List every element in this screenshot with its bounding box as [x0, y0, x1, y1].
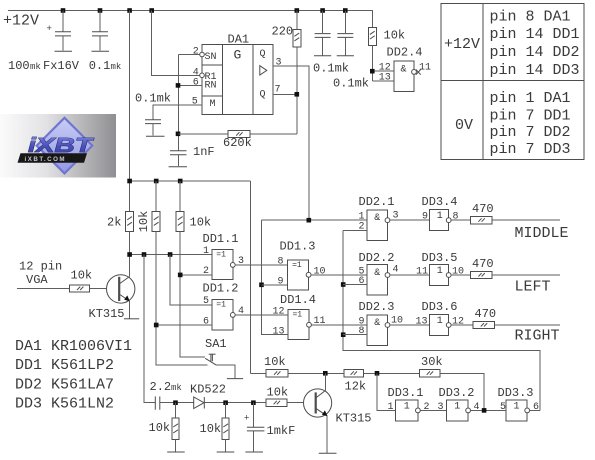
svg-text:DD2.4: DD2.4 — [387, 46, 423, 60]
resistor 220 — [293, 29, 301, 47]
ground 1mkF — [245, 451, 263, 453]
ground 10k-d — [217, 451, 235, 453]
svg-text:DD1.1: DD1.1 — [203, 232, 239, 246]
ground cap pin5 — [146, 135, 165, 137]
svg-text:1mkF: 1mkF — [267, 424, 296, 438]
wire 620k right to 220 column — [250, 133, 297, 135]
resistor 10k-c — [172, 403, 179, 452]
svg-text:220: 220 — [272, 24, 294, 38]
resistor 470 right — [473, 321, 495, 328]
svg-text:=1: =1 — [216, 251, 226, 260]
svg-text:mk: mk — [171, 383, 182, 393]
capacitor 2.2mk — [155, 396, 160, 409]
table rows 0V — [490, 90, 571, 158]
DD2.4 output no-connect cross — [416, 70, 421, 75]
svg-text:10k: 10k — [149, 421, 171, 435]
svg-text:DD3.3: DD3.3 — [498, 386, 534, 400]
resistor 10k-b column — [179, 181, 181, 212]
svg-text:1: 1 — [437, 316, 443, 327]
resistor 10k input — [70, 285, 90, 292]
svg-text:3: 3 — [438, 402, 444, 413]
svg-text:6: 6 — [359, 276, 365, 287]
svg-text:470: 470 — [475, 307, 497, 321]
svg-text:iXBT.COM: iXBT.COM — [25, 156, 67, 163]
resistor 620k — [228, 130, 250, 137]
resistor 10k top right pullup — [368, 27, 376, 45]
switch SA1 button — [205, 354, 216, 365]
svg-text:2.2: 2.2 — [150, 380, 172, 394]
wire c4 column to DD1.2 pin5 — [170, 255, 212, 305]
resistor 10k osc — [266, 370, 288, 377]
wire 10k to base — [90, 288, 119, 290]
resistor 10k-e base — [266, 399, 287, 406]
svg-text:DD2.2: DD2.2 — [359, 251, 395, 265]
gate DD3.5 — [430, 265, 451, 286]
svg-text:10k: 10k — [384, 29, 406, 43]
DA1 pin4 inversion circle — [200, 73, 205, 78]
junction pin1-c4 — [168, 252, 173, 257]
svg-text:1: 1 — [454, 402, 460, 413]
capacitor C3 0.1mk top right — [315, 11, 331, 56]
wire DD2.2 out — [390, 274, 430, 276]
svg-text:RN: RN — [205, 81, 217, 92]
svg-text:KT315: KT315 — [336, 412, 372, 426]
svg-text:DD2 K561LA7: DD2 K561LA7 — [15, 376, 114, 393]
svg-text:Q: Q — [260, 89, 266, 100]
svg-text:4: 4 — [474, 402, 480, 413]
wire DD3.5 out — [451, 274, 471, 276]
svg-text:10: 10 — [314, 266, 326, 277]
wire DD2.2 pin6 — [343, 284, 367, 286]
DA1 op-amp/timer box — [202, 45, 273, 115]
svg-text:3: 3 — [238, 256, 244, 267]
svg-text:8: 8 — [278, 256, 284, 267]
svg-text:+: + — [244, 414, 249, 424]
resistor 470 middle — [471, 217, 493, 224]
wire DD2.1 pin2 from feedback column — [343, 229, 367, 231]
ground C3 — [314, 55, 331, 57]
svg-text:6: 6 — [533, 402, 539, 413]
svg-text:470: 470 — [472, 202, 494, 216]
svg-text:DD1 K561LP2: DD1 K561LP2 — [15, 357, 114, 374]
gate DD2.3 — [367, 315, 390, 346]
wire MIDDLE out — [492, 219, 560, 221]
wire DA1 pin3 branch column — [262, 220, 289, 335]
label 2.2mk — [150, 380, 182, 394]
svg-text:DD3.4: DD3.4 — [422, 195, 458, 209]
svg-text:10: 10 — [452, 266, 464, 277]
junction pin3 column — [307, 218, 312, 223]
ground SA1 — [227, 378, 243, 380]
ground Q1 emitter — [124, 318, 139, 320]
svg-text:10k: 10k — [137, 211, 151, 233]
svg-text:8: 8 — [359, 326, 365, 337]
wire pin6 RN — [178, 84, 201, 86]
wire DD2.3 out — [390, 324, 430, 326]
svg-text:G: G — [234, 48, 242, 63]
svg-text:LEFT: LEFT — [515, 279, 551, 296]
junction rail C1 — [61, 8, 66, 13]
bias row wire y181 — [130, 180, 251, 182]
wire 10k to DD2.4 inputs — [372, 45, 394, 81]
junction pin1-c2 — [142, 252, 147, 257]
svg-text:10k: 10k — [200, 422, 222, 436]
capacitor C1 100mkFx16V — [47, 11, 72, 51]
svg-text:RIGHT: RIGHT — [515, 327, 560, 344]
resistor 2k — [126, 212, 134, 232]
transistor Q2 KT315 — [304, 373, 332, 453]
svg-text:Fx16V: Fx16V — [43, 59, 80, 73]
svg-text:1: 1 — [388, 402, 394, 413]
svg-text:13: 13 — [273, 326, 285, 337]
feedback column — [343, 230, 540, 410]
wire DD3.6 out — [451, 324, 473, 326]
DA1 pin2 inversion circle — [200, 52, 205, 57]
svg-text:0.1: 0.1 — [89, 59, 111, 73]
svg-text:mk: mk — [30, 62, 41, 72]
svg-text:=1: =1 — [216, 301, 226, 310]
junction pin7-220 — [295, 92, 300, 97]
svg-text:DD3.6: DD3.6 — [422, 300, 458, 314]
svg-text:10k: 10k — [264, 355, 286, 369]
gate DD3.6 — [430, 315, 451, 336]
gate DD2.1 — [367, 210, 390, 241]
svg-text:100: 100 — [8, 59, 30, 73]
junction rail 220 column — [295, 8, 300, 13]
wire DA1 pin3 output — [273, 66, 309, 220]
gate DD3.4 — [430, 210, 451, 231]
svg-text:11: 11 — [416, 266, 428, 277]
svg-text:pin 7 DD3: pin 7 DD3 — [490, 141, 571, 158]
junction 10k-a top — [154, 179, 159, 184]
junction 30k DD3.3 input — [482, 408, 487, 413]
svg-text:pin 14 DD2: pin 14 DD2 — [490, 44, 580, 61]
svg-text:&: & — [374, 213, 380, 224]
svg-text:1: 1 — [437, 266, 443, 277]
wire DD3.2 out — [471, 409, 506, 411]
svg-text:DD3.1: DD3.1 — [388, 386, 424, 400]
junction rail C2 — [98, 8, 103, 13]
wire pin4 column — [152, 11, 200, 76]
resistor 10k-d — [222, 403, 229, 452]
ground C4 — [337, 55, 354, 57]
junction pin1-2k — [127, 252, 132, 257]
wire DD1.3 out to DD2.2 pin5 — [311, 274, 367, 276]
wire DD3.1 out — [420, 409, 446, 411]
capacitor 1nF — [170, 151, 187, 166]
svg-text:pin 8 DA1: pin 8 DA1 — [490, 8, 571, 25]
svg-text:7: 7 — [275, 85, 281, 96]
capacitor 0.1mk at pin5 — [145, 120, 161, 136]
svg-text:MIDDLE: MIDDLE — [515, 225, 569, 242]
wire DA1 pin7 output — [273, 93, 297, 95]
ground Q2 emitter — [319, 452, 337, 454]
junction rail 2k column — [127, 8, 132, 13]
junction SN-RN — [176, 83, 181, 88]
svg-text:DD1.4: DD1.4 — [280, 293, 316, 307]
junction 1mkF top — [251, 400, 256, 405]
svg-text:12: 12 — [273, 306, 285, 317]
iXBT logo watermark banner — [0, 114, 116, 178]
svg-text:2: 2 — [193, 47, 199, 58]
junction rail C3 — [320, 8, 325, 13]
svg-text:+12V: +12V — [444, 36, 480, 53]
svg-text:DA1 KR1006VI1: DA1 KR1006VI1 — [15, 338, 132, 355]
wire DD3.4 out — [451, 219, 471, 221]
svg-text:5: 5 — [203, 296, 209, 307]
junction pin6-10ka — [154, 323, 159, 328]
ground 10k-c — [167, 451, 185, 453]
capacitor 1mkF — [244, 403, 264, 452]
svg-text:pin 7 DD1: pin 7 DD1 — [490, 108, 571, 125]
wire DD2.1 out — [390, 219, 430, 221]
svg-text:M: M — [210, 99, 216, 110]
svg-text:5: 5 — [500, 402, 506, 413]
wire 10k-b down to SA1 — [180, 232, 205, 358]
svg-text:9: 9 — [422, 212, 428, 223]
svg-text:1: 1 — [404, 402, 410, 413]
pin table — [441, 4, 584, 160]
wire MIDDLE gating row — [262, 219, 368, 221]
junction pin2-10kb — [178, 273, 183, 278]
resistor 12k — [344, 370, 364, 377]
svg-text:+: + — [47, 24, 52, 34]
wire DD1.2 out to DD1.4 pin12 — [235, 314, 288, 316]
gate DD1.3 — [288, 260, 311, 290]
wire DD1.3 pin9 — [262, 284, 288, 286]
svg-text:2: 2 — [424, 402, 430, 413]
svg-text:10k: 10k — [267, 386, 289, 400]
wire 620k left — [178, 133, 228, 135]
junction 620k-SN column — [176, 132, 181, 137]
svg-text:5: 5 — [192, 96, 198, 107]
gate DD1.1 — [212, 250, 235, 280]
svg-text:DD3 K561LN2: DD3 K561LN2 — [15, 396, 114, 413]
svg-text:pin 1 DA1: pin 1 DA1 — [490, 90, 571, 107]
svg-text:13: 13 — [416, 316, 428, 327]
svg-text:&: & — [374, 268, 380, 279]
svg-text:KD522: KD522 — [190, 383, 226, 397]
junction DD2.4 input — [370, 69, 375, 74]
wire RIGHT out — [495, 324, 560, 326]
svg-text:SN: SN — [205, 52, 217, 63]
svg-text:2: 2 — [203, 266, 209, 277]
wire DD1.2 pin6 row — [156, 324, 212, 326]
svg-text:SA1: SA1 — [205, 337, 227, 351]
junction rail pin4 column — [149, 8, 154, 13]
svg-text:DD1.2: DD1.2 — [203, 282, 239, 296]
label 100mkFx16V 0.1mk — [8, 59, 121, 73]
gate DD1.2 — [212, 300, 235, 331]
svg-text:KT315: KT315 — [89, 307, 125, 321]
oscillator row wire — [251, 373, 485, 410]
ground 1nF — [169, 166, 187, 168]
svg-text:12: 12 — [452, 316, 464, 327]
gate DD2.2 — [367, 265, 390, 296]
svg-text:DD3.2: DD3.2 — [439, 386, 475, 400]
wire DD1.1 out to DD1.3 pin8 — [235, 264, 287, 266]
wire 2k column upper — [129, 11, 131, 212]
svg-text:DD3.5: DD3.5 — [422, 251, 458, 265]
svg-text:10k: 10k — [190, 216, 212, 230]
wire 2k bottom to collector — [129, 232, 131, 277]
table rows +12V — [490, 8, 580, 79]
svg-text:=1: =1 — [292, 261, 302, 270]
svg-text:10k: 10k — [71, 269, 93, 283]
wire DD3.3 out to feedback — [530, 409, 540, 411]
svg-text:9: 9 — [278, 276, 284, 287]
svg-text:VGA: VGA — [26, 273, 48, 287]
wire DD1.1 pin2 row — [180, 274, 212, 276]
svg-text:0.1mk: 0.1mk — [313, 62, 349, 76]
resistor 30k — [420, 370, 440, 377]
wire SN/RN/620k column — [177, 55, 179, 151]
svg-text:pin 14 DD1: pin 14 DD1 — [490, 26, 580, 43]
svg-text:11: 11 — [419, 62, 431, 73]
svg-text:470: 470 — [472, 257, 494, 271]
junction rail C4 — [343, 8, 348, 13]
resistor 10k-a column — [155, 181, 157, 212]
svg-text:620k: 620k — [223, 136, 252, 150]
wire DD3.1 input — [377, 373, 396, 410]
svg-text:12 pin: 12 pin — [19, 260, 62, 274]
wire 220 column — [296, 11, 298, 134]
junction feedback DD2.2 pin6 — [341, 282, 346, 287]
junction feedback DD2.3 pin8 — [341, 332, 346, 337]
+12V power rail — [8, 11, 372, 28]
svg-text:1: 1 — [203, 246, 209, 257]
junction 10k-c top — [173, 400, 178, 405]
svg-text:DA1: DA1 — [228, 33, 250, 47]
svg-text:1: 1 — [437, 211, 443, 222]
svg-text:Q: Q — [260, 49, 266, 60]
junction 2k top — [127, 179, 132, 184]
wire pin5 M — [153, 105, 202, 119]
wire 10k-a down to SA1 — [156, 232, 207, 365]
resistor 470 left — [471, 271, 493, 278]
svg-text:&: & — [374, 318, 380, 329]
svg-text:pin 7 DD2: pin 7 DD2 — [490, 124, 571, 141]
wire LEFT out — [492, 274, 560, 276]
wire c2 column down to 2.2mk — [144, 255, 155, 403]
wire SA1 right to ground — [217, 365, 235, 379]
svg-text:1nF: 1nF — [193, 145, 215, 159]
svg-text:mk: mk — [111, 62, 122, 72]
svg-text:8: 8 — [453, 212, 459, 223]
wire pin2 SN to column — [178, 54, 199, 56]
svg-text:+12V: +12V — [3, 13, 39, 30]
junction 10k-b top — [178, 179, 183, 184]
svg-text:0.1mk: 0.1mk — [333, 77, 369, 91]
ground C2 — [92, 50, 110, 52]
diode KD522 — [194, 397, 205, 409]
svg-text:DD2.3: DD2.3 — [359, 300, 395, 314]
svg-text:0.1mk: 0.1mk — [135, 92, 171, 106]
svg-text:4: 4 — [393, 265, 399, 276]
svg-text:3: 3 — [276, 58, 282, 69]
wire column from bias row to osc — [250, 181, 252, 373]
transistor Q1 KT315 — [107, 275, 135, 319]
svg-text:DD1.3: DD1.3 — [280, 239, 316, 253]
svg-text:&: & — [401, 65, 407, 76]
svg-text:0V: 0V — [455, 117, 473, 134]
svg-text:1: 1 — [513, 402, 519, 413]
svg-text:pin 14 DD3: pin 14 DD3 — [490, 62, 580, 79]
capacitor C2 0.1mk — [92, 11, 108, 51]
gate DD3.3 — [506, 400, 530, 421]
svg-text:=1: =1 — [293, 311, 303, 320]
wire DD1.4 out to DD2.3 pin9 — [311, 324, 367, 326]
ground C1 — [55, 50, 73, 52]
svg-text:13: 13 — [379, 73, 391, 84]
svg-text:DD2.1: DD2.1 — [359, 195, 395, 209]
wire VGA input — [17, 288, 70, 290]
gate DD3.1 — [396, 400, 421, 421]
gate DD1.4 — [288, 310, 311, 340]
svg-text:12k: 12k — [345, 380, 367, 394]
svg-text:30k: 30k — [421, 355, 443, 369]
gate DD2.4 — [394, 61, 416, 92]
svg-text:2k: 2k — [107, 216, 121, 230]
junction DD1.3 pin9 — [259, 283, 264, 288]
capacitor C4 0.1mk top right — [337, 11, 353, 56]
junction 10k-d top — [223, 400, 228, 405]
wire DD1.1 pin1 row — [130, 254, 212, 256]
junction DD3.1 input — [375, 371, 380, 376]
gate DD3.2 — [447, 400, 471, 421]
junction Q2 collector — [323, 371, 328, 376]
svg-text:4: 4 — [238, 306, 244, 317]
wire DD2.3 pin8 — [343, 334, 367, 336]
bottom row wire — [160, 402, 304, 404]
svg-text:6: 6 — [203, 316, 209, 327]
DA1 output triangle — [260, 66, 267, 75]
svg-text:6: 6 — [193, 77, 199, 88]
